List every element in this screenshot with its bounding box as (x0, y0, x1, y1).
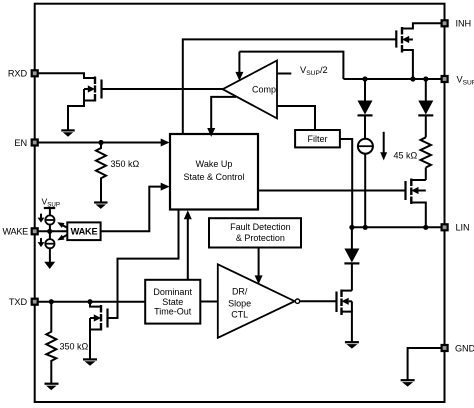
node LIN at D3 (349, 225, 354, 230)
wire VSUP to D1 (364, 79, 366, 101)
wire D2 to R3 (425, 115, 427, 137)
VSUP supply bar (44, 207, 55, 209)
node VSUP at D1 (362, 76, 367, 81)
wire node to I2 (49, 231, 51, 240)
node on WAKE wire (47, 229, 52, 234)
wire comparator output drop to Wake Up box (211, 97, 236, 130)
svg-text:VSUP/2: VSUP/2 (300, 65, 328, 77)
pin LIN (442, 223, 470, 233)
diode D3 (344, 249, 359, 264)
svg-text:& Protection: & Protection (236, 233, 285, 243)
node LIN at Q4 (423, 225, 428, 230)
ground for R2 (45, 384, 59, 390)
box U3 Dominant State Time-Out (145, 280, 200, 324)
box U2 Fault Detection & Protection (209, 218, 301, 247)
arrow current direction I3 (380, 132, 387, 161)
node TXD at Q2 (87, 299, 92, 304)
wire Wake Up box to Q2 gate (108, 210, 179, 318)
wire D3 to Q5 drain (351, 263, 353, 290)
wire Wake Up box to Q4 gate (258, 190, 406, 192)
svg-text:VSUP: VSUP (457, 74, 474, 86)
svg-text:RXD: RXD (8, 69, 28, 79)
svg-text:Fault Detection: Fault Detection (230, 222, 291, 232)
svg-text:DR/: DR/ (232, 286, 248, 296)
pin RXD (8, 69, 38, 79)
box U1 Wake Up State & Control (170, 134, 258, 210)
svg-text:WAKE: WAKE (2, 227, 28, 237)
node on EN wire (98, 140, 103, 145)
box U5 WAKE detector (67, 222, 100, 240)
wire R3 to Q4 drain (425, 168, 427, 181)
wire Filter to LIN rail (340, 139, 352, 227)
wire LIN rail (352, 226, 442, 228)
pin TXD (9, 297, 38, 307)
wire Dominant box to DR/Slope (200, 301, 218, 303)
wire comparator top input from VSUP rail (239, 52, 343, 79)
current source I2 (wake pull-down) (45, 239, 54, 248)
svg-text:TXD: TXD (9, 297, 28, 307)
box U4 Filter (295, 130, 340, 147)
svg-text:CTL: CTL (231, 309, 248, 319)
wire LIN to D3 (351, 227, 353, 248)
wire supply bar to I1 (49, 208, 51, 216)
svg-text:Time-Out: Time-Out (154, 307, 192, 317)
ground for Q5 (345, 342, 359, 348)
wire VSUP/2 stub to comparator (277, 73, 291, 75)
svg-text:GND: GND (455, 343, 474, 353)
svg-text:WAKE: WAKE (71, 227, 98, 237)
transistor Q3 (INH switch) (396, 23, 441, 79)
arrow current direction I2 (38, 238, 45, 247)
current source I3 (358, 139, 373, 154)
wire comparator output to Q1 gate (102, 88, 223, 90)
svg-text:EN: EN (14, 138, 27, 148)
op-amp U7 DR/Slope CTL driver (218, 264, 295, 338)
node VSUP at D2 (423, 76, 428, 81)
wire I2 to sink (49, 247, 51, 262)
arrow WAKE box to I2 (57, 235, 67, 241)
svg-text:Wake Up: Wake Up (196, 159, 233, 169)
svg-text:VSUP: VSUP (42, 197, 60, 209)
svg-text:Comp: Comp (252, 84, 276, 94)
arrow Fault box to DR/Slope (258, 248, 260, 277)
svg-text:INH: INH (456, 19, 472, 29)
pin GND (442, 343, 474, 353)
svg-text:Slope: Slope (228, 298, 251, 308)
current source I1 (wake pull-up) (45, 215, 54, 224)
resistor R1 350 kOhm (EN pull-down) (96, 143, 106, 203)
wire VSUP to D2 (425, 79, 427, 101)
ground for R1 (94, 203, 107, 209)
svg-text:45 kΩ: 45 kΩ (394, 150, 418, 160)
diode D1 (358, 101, 373, 116)
pin WAKE (2, 227, 37, 237)
svg-text:Filter: Filter (308, 134, 328, 144)
svg-text:Dominant: Dominant (153, 287, 192, 297)
wire D1 to I3 (364, 115, 366, 138)
svg-text:State: State (162, 297, 183, 307)
resistor R3 45 kOhm (421, 137, 432, 167)
wire WAKE pin to WAKE box (38, 230, 68, 232)
transistor Q4 (LIN pull-up switch) (406, 179, 426, 228)
ground for Q1 (61, 130, 74, 136)
node TXD at R2 (49, 299, 54, 304)
wire I1 to node (49, 224, 51, 232)
node VSUP at Q3 (410, 76, 415, 81)
wire I3 to LIN rail (364, 154, 366, 228)
node LIN at I3 (363, 225, 368, 230)
ground for GND pin (401, 380, 415, 386)
transistor Q1 (RXD output FET) (68, 77, 102, 130)
wire WAKE box to Wake Up box (101, 187, 162, 232)
pin EN (14, 138, 37, 148)
inverter bubble on U7 output (295, 299, 299, 303)
svg-text:350 kΩ: 350 kΩ (111, 159, 140, 169)
diode D2 (418, 101, 433, 116)
wire DR/Slope bubble to Q5 gate (300, 300, 337, 302)
wire Dominant box up to Wake Up box (187, 216, 189, 280)
arrow current direction I1 (38, 214, 45, 223)
ground sink arrow (wake) (44, 262, 55, 269)
pin VSUP (442, 74, 474, 86)
wire EN to Wake Up box (38, 142, 162, 144)
svg-text:350 kΩ: 350 kΩ (60, 341, 89, 351)
wire GND pin to ground (408, 348, 442, 380)
transistor Q2 (TXD clamp FET) (90, 302, 108, 359)
svg-text:State & Control: State & Control (183, 172, 244, 182)
transistor Q5 (LIN low-side driver) (337, 290, 352, 342)
wire TXD to Dominant State Time-Out (38, 301, 146, 303)
wire VSUP rail (343, 78, 441, 80)
wire RXD to Q1 drain (38, 73, 95, 78)
pin INH (442, 19, 471, 29)
op-amp U6 Comp (receiver comparator) (223, 61, 277, 119)
ground for Q2 (83, 359, 97, 365)
resistor R2 350 kOhm (TXD pull-down) (46, 302, 56, 384)
svg-text:LIN: LIN (456, 223, 470, 233)
wire comparator output to Filter (277, 106, 315, 130)
arrow WAKE box to I1 (57, 222, 67, 228)
wire Wake Up box top to INH gate (183, 39, 396, 134)
